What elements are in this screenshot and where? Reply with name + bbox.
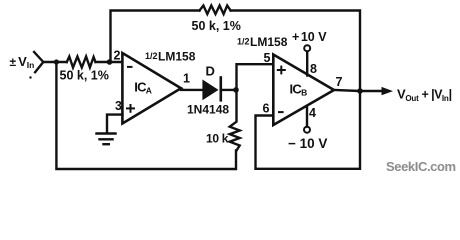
svg-text:5: 5 — [264, 51, 271, 65]
svg-text:8: 8 — [310, 62, 317, 76]
svg-text:6: 6 — [263, 101, 270, 115]
svg-text:1N4148: 1N4148 — [187, 103, 229, 117]
svg-text:SeekIC.com: SeekIC.com — [386, 159, 456, 174]
svg-text:50 k, 1%: 50 k, 1% — [60, 69, 109, 83]
svg-text:D: D — [206, 64, 215, 79]
svg-text:50 k, 1%: 50 k, 1% — [192, 19, 241, 33]
svg-text:7: 7 — [336, 75, 343, 89]
svg-text:4: 4 — [309, 106, 316, 120]
svg-text:2: 2 — [114, 49, 121, 63]
svg-text:+10 V: +10 V — [292, 30, 327, 44]
svg-text:10 k: 10 k — [206, 132, 229, 146]
svg-text:− 10 V: − 10 V — [288, 136, 327, 151]
svg-text:3: 3 — [115, 99, 122, 113]
svg-text:1: 1 — [183, 71, 190, 85]
